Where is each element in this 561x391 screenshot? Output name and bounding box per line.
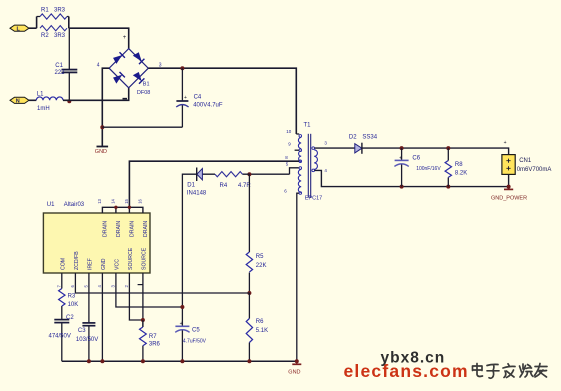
bridge diode top-right [133, 53, 144, 64]
capacitor C2 [49, 315, 75, 361]
svg-text:R2: R2 [41, 33, 49, 39]
svg-text:N: N [16, 99, 20, 105]
junction SOURCE/R7 [141, 318, 145, 322]
svg-text:EPC17: EPC17 [305, 195, 322, 201]
bridge diode top-left [114, 52, 125, 63]
wire secondary pin3 to D2 [315, 147, 355, 149]
wire secondary pin4 to rail [315, 170, 509, 186]
svg-text:IN4148: IN4148 [187, 191, 207, 197]
resistor R4 [202, 172, 251, 189]
svg-text:10: 10 [286, 129, 292, 134]
wire SOURCE pin B [142, 273, 144, 327]
bottom ground rail [62, 360, 297, 362]
capacitor C3 [76, 323, 98, 361]
wire CN1 to GND_POWER [508, 174, 510, 189]
junction rail C5 [180, 359, 184, 363]
svg-text:5.1K: 5.1K [256, 328, 268, 334]
svg-text:DRAIN: DRAIN [102, 221, 108, 237]
bridge rectifier B1 [109, 49, 150, 97]
junction R8 bottom [446, 185, 450, 189]
svg-text:U1: U1 [47, 202, 55, 208]
junction ZCD divider [247, 291, 251, 295]
resistor R7 [140, 320, 161, 361]
svg-text:D2: D2 [349, 134, 357, 140]
U1 pin 1 dash [138, 284, 143, 286]
svg-text:SOURCE: SOURCE [128, 247, 134, 270]
ground GND (rail) [288, 361, 301, 375]
svg-text:22K: 22K [256, 263, 267, 269]
svg-text:SS34: SS34 [362, 134, 377, 140]
svg-text:100nF/16V: 100nF/16V [416, 166, 441, 172]
transformer T1 primary bottom winding [290, 167, 302, 362]
svg-text:R4: R4 [220, 183, 228, 189]
wire GND pin [101, 273, 103, 361]
wire pin5 aux line [249, 173, 289, 175]
svg-text:C3: C3 [78, 328, 86, 334]
svg-text:IREF: IREF [88, 258, 94, 270]
svg-text:+: + [504, 140, 507, 146]
wire L1 to bridge bottom [63, 88, 129, 101]
diode D2 SS34 [349, 134, 378, 154]
wire IREF pin [88, 273, 90, 323]
diode D1 IN4148 [182, 168, 207, 327]
svg-text:222: 222 [55, 70, 66, 76]
svg-text:0m6V700mA: 0m6V700mA [517, 167, 552, 173]
svg-text:DRAIN: DRAIN [143, 221, 149, 237]
svg-text:13: 13 [97, 198, 102, 203]
junction C6 top [400, 146, 404, 150]
junction R4/R5/pin5 [247, 172, 251, 176]
wire drain to transformer pin 8 [129, 161, 299, 207]
wire SOURCE pin A [129, 273, 143, 320]
svg-text:R7: R7 [149, 334, 157, 340]
resistor R1 [37, 8, 69, 19]
resistor R2 [40, 26, 67, 40]
transformer T1 secondary winding [312, 147, 318, 172]
wire parallel bracket right [68, 17, 70, 29]
wire C4 bottom to GND drop [102, 126, 182, 128]
svg-text:CN1: CN1 [519, 158, 532, 164]
svg-text:B1: B1 [143, 81, 150, 87]
svg-text:16: 16 [138, 198, 143, 203]
transformer core [308, 134, 310, 198]
svg-text:SOURCE: SOURCE [142, 247, 148, 270]
svg-text:103/50V: 103/50V [76, 337, 98, 343]
connector CN1 [502, 155, 551, 175]
wire COM pin [61, 273, 63, 289]
junction rail right end [295, 359, 299, 363]
svg-text:8.2K: 8.2K [455, 170, 467, 176]
junction C1/N-line [67, 99, 71, 103]
junction C4-return on GND drop [100, 125, 104, 129]
svg-text:C6: C6 [412, 156, 420, 162]
U1 DRAIN pin labels [102, 221, 149, 237]
junction C4 top [180, 66, 184, 70]
svg-text:474/50V: 474/50V [49, 334, 71, 340]
svg-text:R5: R5 [256, 254, 264, 260]
svg-text:1mH: 1mH [37, 106, 50, 112]
wire bridge left vertex to GND drop [102, 68, 109, 146]
junction R8 top [446, 146, 450, 150]
svg-text:ZCD/FB: ZCD/FB [74, 251, 80, 270]
svg-text:R1: R1 [41, 8, 49, 14]
wire L to R1R2 [29, 27, 37, 29]
svg-text:+: + [123, 35, 127, 41]
bridge diode bottom-right [133, 72, 144, 83]
junction rail C3 [87, 359, 91, 363]
capacitor C5 [175, 321, 206, 361]
junction CN1 rail [507, 185, 511, 189]
svg-text:3R3: 3R3 [54, 33, 66, 39]
junction VCC/D1 [180, 305, 184, 309]
svg-text:C5: C5 [192, 328, 200, 334]
svg-text:D1: D1 [187, 182, 195, 188]
svg-text:14: 14 [111, 198, 116, 203]
resistor R5 [246, 174, 266, 293]
svg-text:GND: GND [101, 258, 107, 270]
capacitor C4 [176, 68, 223, 127]
junction C6 bottom [400, 185, 404, 189]
wire R1R2 to bridge top [69, 28, 129, 48]
resistor R8 [445, 148, 467, 187]
svg-text:elecfans.com: elecfans.com [344, 361, 469, 381]
svg-text:R8: R8 [455, 162, 463, 168]
svg-text:15: 15 [124, 198, 129, 203]
bridge diode bottom-left [114, 72, 125, 83]
svg-text:10K: 10K [68, 302, 79, 308]
svg-text:DF08: DF08 [137, 90, 150, 96]
node N terminal [10, 97, 29, 104]
svg-text:400V4.7uF: 400V4.7uF [193, 103, 223, 109]
svg-text:3R3: 3R3 [54, 8, 66, 14]
U1 drain bus [102, 207, 142, 213]
svg-text:L1: L1 [37, 92, 44, 98]
ground GND (bridge) [95, 147, 108, 156]
svg-text:C2: C2 [66, 315, 74, 321]
svg-text:C4: C4 [194, 94, 202, 100]
U1 bottom pin labels [61, 247, 148, 270]
svg-text:C1: C1 [55, 63, 63, 69]
svg-text:GND_POWER: GND_POWER [491, 195, 527, 201]
transformer T1 primary top winding [295, 134, 302, 163]
junction drain bus 14 [114, 206, 117, 209]
wire ZCD/FB pin to divider [75, 273, 249, 293]
junction rail GNDpin [100, 359, 104, 363]
svg-text:GND: GND [288, 369, 300, 375]
svg-text:VCC: VCC [115, 259, 121, 270]
junction rail R6 [247, 359, 251, 363]
capacitor C1 [55, 28, 78, 101]
svg-text:R3: R3 [68, 294, 76, 300]
wire D2 to CN1 [362, 148, 509, 155]
wire bridge right vertex to transformer [148, 68, 296, 134]
svg-text:COM: COM [61, 258, 67, 270]
resistor R6 [246, 293, 268, 361]
bridge minus label [123, 98, 128, 100]
IC U1 Altair03 [43, 202, 150, 273]
wire VCC pin [116, 273, 182, 307]
svg-text:4.7uF/50V: 4.7uF/50V [183, 339, 207, 345]
svg-text:Altair03: Altair03 [64, 202, 85, 208]
svg-text:DRAIN: DRAIN [116, 221, 122, 237]
ground GND_POWER [491, 189, 527, 201]
inductor L1 [29, 92, 63, 112]
svg-text:GND: GND [95, 149, 107, 155]
junction rail R7 [141, 359, 145, 363]
svg-text:4: 4 [97, 62, 100, 68]
resistor R3 [59, 289, 79, 320]
svg-text:T1: T1 [304, 123, 312, 129]
node L terminal [10, 25, 29, 32]
svg-text:DRAIN: DRAIN [129, 221, 135, 237]
svg-text:3R6: 3R6 [149, 342, 161, 348]
capacitor C6 [394, 148, 441, 187]
junction drain bus riser [128, 206, 131, 209]
svg-text:R6: R6 [256, 319, 264, 325]
watermark chinese characters [473, 364, 548, 379]
wire parallel bracket left [36, 17, 38, 29]
